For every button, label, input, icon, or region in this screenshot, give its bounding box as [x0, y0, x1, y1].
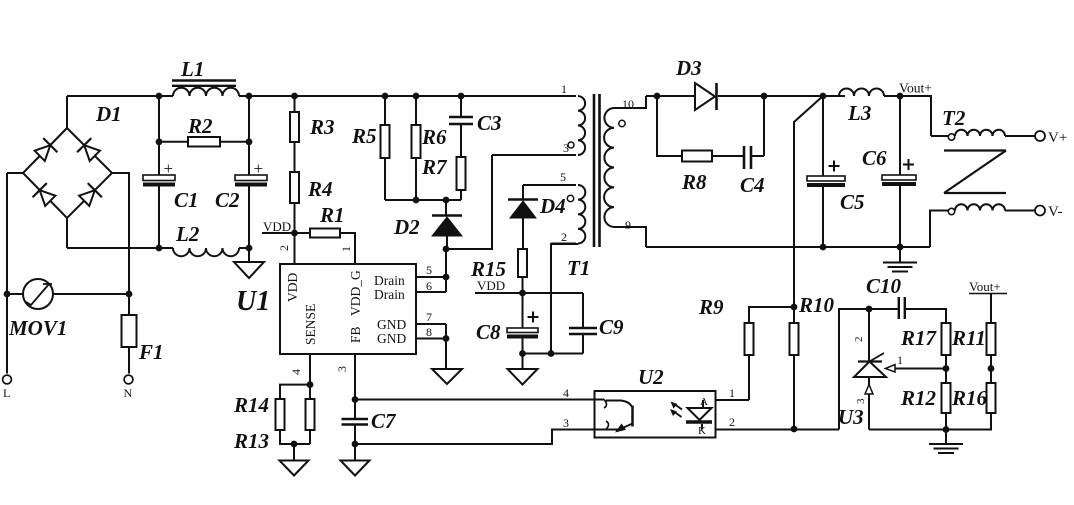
- label F1: [138, 340, 164, 364]
- T1 aux winding: [523, 185, 585, 244]
- svg-text:U3: U3: [838, 405, 864, 429]
- U2 LED: [686, 396, 712, 437]
- svg-text:F1: F1: [138, 340, 164, 364]
- node anode-ground junction: [943, 426, 950, 433]
- wire R9 top: [749, 307, 794, 323]
- svg-text:VDD: VDD: [263, 219, 291, 234]
- label C3: [477, 111, 502, 135]
- wire R14R13 top: [279, 384, 310, 386]
- node rail-R6: [413, 93, 420, 100]
- svg-text:4: 4: [563, 386, 569, 400]
- label T2: [942, 106, 966, 130]
- label R2: [187, 114, 213, 138]
- U1 pin name VDD_G: [348, 270, 363, 316]
- wire AC line N rail: [112, 173, 129, 374]
- svg-text:2: 2: [729, 415, 735, 429]
- svg-text:R10: R10: [798, 293, 835, 317]
- resistor R14: [276, 385, 285, 444]
- label R8: [681, 170, 707, 194]
- svg-text:C2: C2: [215, 188, 240, 212]
- capacitor C2: [235, 96, 267, 248]
- svg-text:C1: C1: [174, 188, 199, 212]
- label D2: [393, 215, 420, 239]
- svg-text:GND: GND: [377, 331, 406, 346]
- svg-text:U2: U2: [638, 365, 664, 389]
- svg-text:1: 1: [729, 386, 735, 400]
- svg-text:R9: R9: [698, 295, 724, 319]
- svg-text:R6: R6: [421, 125, 447, 149]
- node pin2 gnd junction: [548, 350, 555, 357]
- node rail-C6: [897, 93, 904, 100]
- svg-text:R14: R14: [233, 393, 269, 417]
- svg-text:3: 3: [563, 416, 569, 430]
- svg-text:R13: R13: [233, 429, 269, 453]
- svg-text:R11: R11: [951, 326, 986, 350]
- svg-text:C10: C10: [866, 274, 902, 298]
- node L-MOV1 junction: [4, 291, 11, 298]
- svg-text:A: A: [700, 396, 708, 408]
- diode D1d bottom-right: [79, 183, 102, 206]
- label C5: [840, 190, 865, 214]
- wire D2 to T1 pin3: [446, 155, 492, 249]
- U3 pin 1: [897, 353, 903, 367]
- svg-text:3: 3: [855, 398, 867, 404]
- node rail-R5: [382, 93, 389, 100]
- svg-text:8: 8: [426, 325, 432, 339]
- net label VDD right: [477, 278, 505, 293]
- svg-text:9: 9: [625, 218, 631, 232]
- T2 bottom polarity dot: [948, 208, 954, 214]
- label R13: [233, 429, 269, 453]
- wire aux gnd line: [523, 353, 584, 355]
- wire secondary bottom rail: [646, 246, 930, 248]
- wire primary top rail: [67, 95, 576, 97]
- inductor L3: [839, 89, 900, 96]
- label C6: [862, 146, 887, 170]
- capacitor C7: [342, 400, 369, 445]
- earth ground below R12: [929, 430, 963, 454]
- label R6: [421, 125, 447, 149]
- node N-MOV1 junction: [126, 291, 133, 298]
- svg-text:1: 1: [561, 82, 567, 96]
- node pin5 junction: [443, 274, 450, 281]
- svg-text:T1: T1: [567, 256, 590, 280]
- label U2: [638, 365, 664, 389]
- svg-text:C4: C4: [740, 173, 765, 197]
- wire R8C4 branch: [657, 96, 764, 156]
- capacitor C10: [869, 297, 946, 323]
- wire FB line to U2 pin4: [355, 386, 595, 400]
- ground below C2: [234, 248, 264, 278]
- node rail-R8: [654, 93, 661, 100]
- capacitor C5: [807, 96, 845, 247]
- node rail-C5: [820, 93, 827, 100]
- label T1: [567, 256, 590, 280]
- svg-text:R7: R7: [421, 155, 448, 179]
- capacitor C3: [449, 96, 473, 157]
- resistor R5: [381, 96, 390, 200]
- wire U2 pin1: [716, 386, 750, 400]
- label L2: [175, 222, 200, 246]
- svg-text:C5: C5: [840, 190, 865, 214]
- T2 top winding: [931, 130, 1035, 136]
- svg-text:N: N: [124, 386, 133, 400]
- svg-text:R16: R16: [951, 386, 988, 410]
- bridge rectifier D1 diamond: [23, 128, 112, 218]
- svg-text:2: 2: [853, 337, 865, 343]
- diode D1a top-left: [35, 138, 58, 161]
- diode D4: [508, 185, 538, 249]
- node bottomrail-C1: [156, 245, 163, 252]
- resistor R16: [946, 369, 996, 430]
- U1 pin name Drain2: [374, 287, 405, 302]
- T2 bottom winding: [930, 204, 1035, 247]
- T1 core: [594, 94, 600, 247]
- label R11: [951, 326, 986, 350]
- svg-text:Drain: Drain: [374, 273, 405, 288]
- diode D1c bottom-left: [33, 183, 56, 206]
- svg-text:D2: D2: [393, 215, 420, 239]
- label R14: [233, 393, 269, 417]
- inductor L1: [172, 81, 239, 97]
- node VDD-R1: [291, 230, 298, 237]
- svg-text:VDD_G: VDD_G: [348, 270, 363, 316]
- node R15-C8: [519, 290, 526, 297]
- svg-text:Vout+: Vout+: [899, 81, 932, 96]
- node bus-D2: [443, 197, 450, 204]
- resistor R13: [306, 385, 315, 444]
- svg-text:V+: V+: [1048, 130, 1067, 146]
- node pin8 junction: [443, 335, 450, 342]
- label R17: [900, 326, 938, 350]
- resistor R9: [745, 323, 754, 400]
- svg-text:MOV1: MOV1: [8, 316, 67, 340]
- node bottomrail-C2: [246, 245, 253, 252]
- svg-text:L2: L2: [175, 222, 200, 246]
- svg-text:SENSE: SENSE: [303, 304, 318, 345]
- svg-text:10: 10: [622, 97, 634, 111]
- wire U1 pin4: [289, 354, 310, 385]
- node R10 bottom junction: [791, 426, 798, 433]
- label R12: [900, 386, 937, 410]
- label R9: [698, 295, 724, 319]
- node rail-C1: [156, 93, 163, 100]
- svg-text:R12: R12: [900, 386, 937, 410]
- svg-text:+: +: [164, 159, 174, 178]
- label C8: [476, 320, 501, 344]
- U2 light arrows: [670, 402, 682, 418]
- ground below U1: [432, 369, 462, 384]
- label R7: [421, 155, 448, 179]
- node D2-drain junction: [443, 246, 450, 253]
- node bottomrail-C6: [897, 244, 904, 251]
- label D1: [95, 102, 122, 126]
- capacitor C4: [744, 146, 751, 169]
- label C10: [866, 274, 902, 298]
- wire U1 pin7: [416, 310, 446, 324]
- svg-text:C3: C3: [477, 111, 502, 135]
- svg-text:R3: R3: [309, 115, 335, 139]
- svg-text:R1: R1: [319, 203, 345, 227]
- node C8 bottom: [519, 350, 526, 357]
- T1 primary winding: [492, 96, 585, 155]
- svg-text:3: 3: [335, 366, 349, 372]
- T1 pin 5: [560, 170, 566, 184]
- wire bridge plus to top rail: [66, 96, 68, 128]
- node rail-C4: [761, 93, 768, 100]
- U3 pin 2: [853, 337, 865, 343]
- terminal N: [124, 375, 133, 400]
- svg-text:D4: D4: [539, 194, 566, 218]
- svg-text:Drain: Drain: [374, 287, 405, 302]
- U1 pin name Drain1: [374, 273, 405, 288]
- wire VDD aux line: [475, 292, 583, 294]
- node R13 gnd junction: [291, 441, 298, 448]
- svg-text:R8: R8: [681, 170, 707, 194]
- svg-text:T2: T2: [942, 106, 966, 130]
- label U3: [838, 405, 864, 429]
- svg-text:R2: R2: [187, 114, 213, 138]
- resistor R3: [290, 96, 299, 172]
- svg-text:C8: C8: [476, 320, 501, 344]
- resistor R7: [457, 157, 466, 200]
- resistor R8: [682, 151, 712, 162]
- node U3 cathode junction: [866, 306, 873, 313]
- T1 pin 1: [561, 82, 567, 96]
- wire C7 line to U2 pin3: [355, 416, 595, 444]
- wire U1 pin5: [416, 263, 446, 277]
- svg-text:R4: R4: [307, 177, 333, 201]
- wire R14R13 bottom: [279, 443, 310, 445]
- svg-text:5: 5: [560, 170, 566, 184]
- node bus-R6: [413, 197, 420, 204]
- resistor R4: [290, 172, 299, 233]
- svg-text:1: 1: [897, 353, 903, 367]
- capacitor C1: [143, 96, 175, 248]
- node R2 left: [156, 138, 163, 145]
- node R9-R10 junction: [791, 304, 798, 311]
- U1 pin name GND1: [377, 317, 406, 332]
- svg-text:VDD: VDD: [477, 278, 505, 293]
- wire U3 anode line: [869, 429, 946, 431]
- svg-text:7: 7: [426, 310, 432, 324]
- ground below C8: [508, 354, 538, 385]
- resistor R10: [790, 323, 799, 429]
- label D4: [539, 194, 566, 218]
- svg-text:GND: GND: [377, 317, 406, 332]
- optocoupler U2 box: [595, 391, 716, 438]
- U1 pin name SENSE: [303, 304, 318, 345]
- svg-text:2: 2: [277, 245, 291, 251]
- inductor L2: [173, 248, 239, 256]
- svg-text:D1: D1: [95, 102, 122, 126]
- wire bridge minus to bottom rail: [66, 218, 68, 248]
- node R2 right: [246, 138, 253, 145]
- node ref-R17: [943, 365, 950, 372]
- U3 pin 3: [855, 398, 867, 404]
- label C2: [215, 188, 240, 212]
- T1 secondary polarity dot: [619, 120, 625, 126]
- wire gnd bus: [445, 324, 447, 369]
- node rail-C2: [246, 93, 253, 100]
- shunt regulator U3: [854, 309, 946, 430]
- node rail-C3: [458, 93, 465, 100]
- wire primary bottom rail: [67, 247, 249, 249]
- label C1: [174, 188, 199, 212]
- wire drain bus: [445, 249, 447, 292]
- resistor R15: [518, 249, 527, 293]
- svg-text:5: 5: [426, 263, 432, 277]
- svg-text:R5: R5: [351, 124, 377, 148]
- svg-text:R17: R17: [900, 326, 938, 350]
- capacitor C8: [507, 293, 539, 354]
- resistor R12: [942, 369, 951, 430]
- label R1: [319, 203, 345, 227]
- T1 pin 3: [563, 141, 574, 155]
- svg-text:VDD: VDD: [285, 273, 300, 302]
- T1 pin 9: [625, 218, 631, 232]
- svg-text:U1: U1: [236, 286, 270, 317]
- wire U1 pin3: [335, 354, 355, 400]
- resistor R17: [942, 323, 951, 369]
- varistor MOV1: [7, 279, 129, 309]
- wire rail diagonal to R10: [794, 96, 823, 323]
- T1 pin 10: [622, 97, 634, 111]
- diode D1b top-right: [77, 138, 100, 161]
- T1 secondary winding: [604, 96, 646, 247]
- label R15: [470, 257, 506, 281]
- diode D2: [432, 200, 462, 249]
- pin 2 of U1: [277, 245, 291, 251]
- label R10: [798, 293, 835, 317]
- svg-text:4: 4: [289, 369, 303, 375]
- svg-text:L3: L3: [847, 101, 871, 125]
- label R3: [309, 115, 335, 139]
- node C7 bottom junction: [352, 441, 359, 448]
- terminal L: [3, 375, 12, 400]
- net label Vout+ top: [899, 81, 932, 96]
- capacitor C9: [569, 293, 597, 354]
- ground below R13: [280, 444, 309, 476]
- label L3: [847, 101, 871, 125]
- svg-text:C6: C6: [862, 146, 887, 170]
- pin 1 of U1: [339, 246, 353, 252]
- svg-text:C7: C7: [371, 409, 397, 433]
- wire VDD pin2: [294, 233, 296, 264]
- svg-text:FB: FB: [348, 326, 363, 343]
- U1 pin name FB: [348, 326, 363, 343]
- node ref-R11: [988, 365, 995, 372]
- svg-text:2: 2: [561, 230, 567, 244]
- label U1: [236, 286, 270, 317]
- U1 pin name VDD: [285, 273, 300, 302]
- node rail-R3: [291, 93, 298, 100]
- ground below C7: [341, 444, 370, 476]
- label MOV1: [8, 316, 67, 340]
- label R16: [951, 386, 988, 410]
- wire snubber bus: [385, 199, 461, 201]
- resistor R2: [159, 137, 249, 147]
- label L1: [180, 57, 204, 81]
- svg-text:V-: V-: [1048, 204, 1062, 220]
- terminal V-: [1035, 204, 1062, 220]
- fuse F1: [122, 315, 137, 347]
- wire pin2 up to U3 node: [839, 309, 869, 430]
- svg-text:K: K: [698, 425, 706, 437]
- wire secondary top rail: [646, 95, 845, 97]
- earth ground below C6: [883, 247, 917, 272]
- label D3: [675, 56, 702, 80]
- resistor R11: [987, 294, 996, 369]
- wire U1 pin8: [416, 325, 446, 339]
- wire T1 pin2 down: [551, 230, 578, 354]
- svg-text:L1: L1: [180, 57, 204, 81]
- wire U1 pin6: [416, 279, 446, 293]
- svg-text:+: +: [254, 159, 264, 178]
- label R4: [307, 177, 333, 201]
- diode D3: [695, 83, 717, 110]
- net label VDD left: [262, 219, 295, 234]
- capacitor C6: [882, 96, 916, 247]
- resistor R6: [412, 96, 421, 200]
- svg-text:L: L: [3, 386, 10, 400]
- svg-text:Vout+: Vout+: [969, 279, 1001, 294]
- T2 core: [944, 151, 1006, 194]
- op-amp U1 box: [280, 264, 416, 354]
- svg-text:D3: D3: [675, 56, 702, 80]
- T1 aux polarity dot: [567, 195, 573, 201]
- svg-text:1: 1: [339, 246, 353, 252]
- T2 top polarity dot: [948, 134, 954, 140]
- svg-text:6: 6: [426, 279, 432, 293]
- wire U2 pin2: [716, 415, 840, 430]
- node bottomrail-C5: [820, 244, 827, 251]
- label C9: [599, 315, 624, 339]
- svg-text:C9: C9: [599, 315, 624, 339]
- U1 pin name GND2: [377, 331, 406, 346]
- U2 phototransistor: [595, 400, 633, 433]
- wire rail to T2: [900, 96, 931, 136]
- resistor R1: [295, 229, 356, 265]
- node pin3 junction: [352, 396, 359, 403]
- label C7: [371, 409, 397, 433]
- node pin4 junction: [307, 381, 314, 388]
- label R5: [351, 124, 377, 148]
- net label Vout+ bottom: [969, 279, 1007, 294]
- wire AC line L rail: [7, 173, 23, 374]
- terminal V+: [1035, 130, 1067, 146]
- label C4: [740, 173, 765, 197]
